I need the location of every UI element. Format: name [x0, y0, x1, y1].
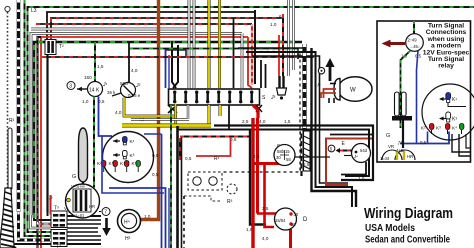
svg-text:1,0: 1,0 [82, 99, 89, 104]
svg-text:1,0: 1,0 [314, 82, 321, 87]
wire: brown heavy vertical [137, 0, 159, 220]
svg-text:5: 5 [330, 147, 333, 152]
connector T3 [51, 206, 67, 248]
wire: red heavy horizontal to F [254, 162, 281, 165]
wire: red corner into T3 [50, 195, 53, 214]
wire: lower-left run grey x33 [31, 215, 52, 228]
ignition feed circle J [77, 82, 108, 97]
svg-text:4,0: 4,0 [115, 110, 122, 115]
wire: red heavy vertical 2 [256, 118, 259, 214]
wire: green dashed vertical x171 [170, 105, 172, 248]
svg-text:2,5: 2,5 [262, 206, 269, 211]
svg-text:K³: K³ [436, 126, 441, 131]
wire: inset blue up right [427, 132, 429, 144]
inset lamp K1 [439, 93, 466, 107]
svg-text:HR: HR [407, 154, 413, 159]
wire: black bus y10 [47, 12, 255, 40]
wire: lower-left run striped x18 [19, 212, 52, 240]
svg-text:3: 3 [69, 84, 72, 90]
wire: grey vertical x288 [287, 0, 290, 76]
svg-text:2,5: 2,5 [303, 162, 310, 167]
wire: lower-left run bottom black [14, 243, 101, 245]
svg-text:J¹: J¹ [102, 82, 108, 88]
wire: grey/red dashed bus y22 [31, 28, 190, 31]
headlight switch F [274, 143, 330, 167]
dashed speaker circle [227, 184, 237, 205]
wire: black/green dashed left vertical [24, 0, 26, 221]
striped cable segment rectangle [304, 131, 311, 171]
svg-text:30: 30 [276, 155, 281, 160]
svg-text:Wiring Diagram: Wiring Diagram [364, 206, 453, 222]
wire: red horizontal to D [257, 212, 278, 214]
maroon arrow from relay [382, 40, 406, 48]
dimmer circle J2 [107, 42, 141, 98]
svg-text:K¹: K¹ [130, 139, 135, 145]
svg-text:R¹: R¹ [214, 156, 220, 162]
wire: green dashed branch y48 [129, 49, 298, 60]
svg-text:4,0: 4,0 [262, 236, 269, 241]
antenna tip circle [5, 6, 10, 11]
wire: red/black dashed vertical x283 to J3 [282, 14, 284, 76]
wire: brown to W [321, 93, 336, 98]
wire: lower-left run reddash x37 [38, 219, 52, 224]
wire: red bus y30 [41, 37, 248, 248]
wire: thin pair into E zone [344, 155, 351, 157]
wire: red heavy from fuse to column [253, 105, 258, 118]
svg-text:0,56 e: 0,56 e [128, 93, 141, 98]
svg-text:R³: R³ [227, 199, 233, 205]
svg-text:K¹: K¹ [452, 97, 457, 103]
speedometer cable hatched tube [0, 188, 16, 248]
svg-text:15/54: 15/54 [275, 218, 286, 223]
svg-text:0,5: 0,5 [185, 156, 192, 161]
svg-text:V+S+H: V+S+H [71, 184, 85, 189]
wire: grey bus y26 [31, 34, 242, 216]
wire: black vertical x233 [233, 18, 235, 88]
wire: green dashed right of G [93, 187, 95, 210]
wire: red to W [324, 89, 337, 98]
wire: green/black heavy dashed bus y41 [34, 42, 302, 220]
svg-text:50: 50 [291, 222, 296, 227]
wire: black horizontal to E zone C [330, 134, 374, 136]
wire: black horizontal to E zone A [214, 126, 373, 181]
wire: blue lamp link y134 [144, 133, 162, 135]
wire: blue loop near fuse box [166, 50, 187, 88]
wire: red dashed into E [340, 150, 352, 152]
wire: yellow drop from fuse 2 [219, 105, 222, 116]
svg-text:0,5: 0,5 [152, 153, 159, 158]
wire: grey vertical x293 [292, 0, 295, 70]
wire: black pair merging into fuse box [172, 41, 176, 88]
svg-text:D: D [303, 217, 308, 223]
fuse box S [169, 89, 267, 105]
wire: black to W [330, 83, 336, 85]
relay J3 [270, 76, 287, 101]
horn H [118, 210, 151, 243]
svg-text:6: 6 [279, 14, 282, 19]
ground symbol circle with dot [318, 68, 324, 74]
up arrow near W [325, 58, 334, 81]
svg-text:G: G [386, 133, 390, 139]
inset box frame [377, 21, 471, 162]
inset text [423, 23, 470, 70]
wire: yellow vertical 2 [218, 0, 221, 88]
svg-text:1=St: 1=St [75, 213, 85, 218]
svg-text:J²: J² [135, 83, 141, 89]
svg-text:2,5: 2,5 [242, 119, 249, 124]
wire: red/white dashed vertical x252 [251, 24, 253, 85]
ignition switch D [275, 208, 309, 230]
wire: grey horizontal y119 [131, 105, 229, 129]
wire: crossing under fuse box [168, 105, 177, 113]
wire: red vertical x279 to J3 [278, 35, 280, 76]
svg-text:W: W [350, 88, 356, 94]
wire: nested black corner 3 [246, 52, 352, 207]
wire: grey/red dashed bus y34 [38, 37, 42, 248]
svg-text:14 K: 14 K [89, 88, 100, 94]
svg-text:G: G [72, 174, 76, 180]
wire: black vertical to fuse box [254, 10, 256, 84]
svg-text:R²: R² [9, 118, 15, 124]
wire: red/black dashed bus y14 [51, 18, 283, 40]
wire: blue drop x169 [168, 188, 170, 248]
switch E [342, 141, 371, 163]
svg-text:L3: L3 [31, 8, 37, 14]
wire: heavy yellow bar [122, 124, 211, 128]
wire: grey vertical pair b [193, 0, 196, 88]
dashed enclosure under dash [222, 52, 300, 173]
wire: black/white striped heavy vertical [17, 0, 21, 212]
svg-text:36 k: 36 k [107, 90, 116, 95]
node circle 5 with arrow [328, 145, 342, 153]
wire: lower-left run greendash x27 [28, 225, 52, 232]
svg-text:0,5: 0,5 [420, 140, 427, 145]
wire: red vertical x248 [248, 37, 252, 88]
svg-text:ƒ6: ƒ6 [398, 140, 403, 145]
wire: grey vertical x242 [241, 34, 244, 89]
wire: black stub pair right of fuses [261, 60, 266, 88]
wire: black/white heavy striped cable vertical [302, 44, 305, 176]
wire: black left-cluster vertical [46, 54, 48, 212]
svg-text:1,0: 1,0 [46, 195, 53, 200]
svg-text:4,0: 4,0 [259, 119, 266, 124]
inset gauge arcs [380, 140, 415, 161]
wire: red/black dashed bus y57 [42, 56, 314, 58]
wire: inset blue horizontal [400, 132, 449, 144]
wire: yellow vertical 1 [208, 0, 211, 88]
svg-text:0,5: 0,5 [98, 99, 105, 104]
svg-text:1,0: 1,0 [358, 176, 365, 181]
wire: blue drop from J [99, 97, 113, 137]
wire: lower-left run blackgreen x24 [25, 221, 52, 236]
wire: dark red frame around E [326, 139, 374, 186]
svg-text:H³: H³ [125, 236, 131, 242]
wire: black horizontal to E zone B [178, 130, 369, 177]
svg-text:K³: K³ [130, 153, 135, 159]
inset flasher relay circle [406, 34, 424, 52]
wire: runs continuing right of T3 [67, 220, 101, 240]
indicator lamp K1 [113, 137, 135, 146]
inset big circle arc [422, 84, 474, 140]
svg-text:54d: 54d [360, 148, 368, 153]
indicator lamp row K2 K5 K4 K6 [97, 161, 140, 173]
wire: black L mid-bottom [250, 129, 266, 225]
fuel gauge sender G [72, 128, 88, 196]
wire: red vertical x264 [265, 164, 275, 228]
emergency flasher switch E3 [64, 184, 100, 218]
svg-text:HR: HR [89, 204, 95, 209]
svg-text:USA Models: USA Models [365, 223, 415, 234]
antenna lead dashed wire [7, 12, 9, 198]
wire: inset blue drop [417, 51, 419, 144]
wire: black below W [329, 98, 334, 103]
wire: red heavy vertical 1 [251, 118, 254, 248]
svg-text:H⁴: H⁴ [124, 220, 130, 226]
speedometer circle [103, 132, 154, 183]
svg-text:58b: 58b [277, 149, 285, 154]
radio R dashed box [188, 156, 222, 190]
ground arrow down [102, 218, 111, 236]
wire: dashed drop left of R [183, 196, 185, 248]
svg-text:Sedan and Convertible: Sedan and Convertible [365, 235, 450, 246]
svg-text:58: 58 [286, 157, 291, 162]
wire: yellow drop from fuse 1 [208, 105, 211, 126]
svg-text:4,0: 4,0 [131, 68, 138, 73]
svg-text:1,0: 1,0 [144, 214, 151, 219]
svg-text:K²: K² [421, 126, 426, 131]
svg-text:150: 150 [84, 75, 92, 80]
svg-text:VL: VL [64, 206, 70, 211]
svg-text:K⁴: K⁴ [452, 126, 457, 131]
svg-text:7: 7 [104, 210, 107, 216]
svg-text:relay: relay [438, 63, 454, 70]
inset stalk shapes [392, 92, 412, 148]
wire: green stub above relay [413, 21, 415, 34]
inset lamp row K2 K3 K4 [421, 124, 464, 135]
wire: blue under speedometer [102, 136, 164, 193]
wire: red branch to radio area [196, 137, 231, 156]
wire: nested black corner 2 [238, 47, 305, 49]
connector T2 [45, 40, 64, 55]
svg-text:K³: K³ [452, 117, 457, 123]
svg-text:30: 30 [294, 212, 299, 217]
inset lamp K3 [439, 112, 457, 123]
wire: red/black dashed vertical x180 [179, 138, 181, 160]
wire: dashed link to radio [184, 196, 220, 201]
svg-text:→45↓: →45↓ [409, 44, 420, 49]
svg-text:T³: T³ [54, 206, 59, 212]
svg-text:VR: VR [388, 144, 394, 149]
node circle 7 [99, 208, 110, 216]
svg-text:2↑49: 2↑49 [408, 38, 418, 43]
svg-text:1=St: 1=St [380, 156, 390, 161]
svg-text:J⁴: J⁴ [354, 154, 358, 159]
wiper motor W [334, 77, 372, 102]
wire: green dashed below J to flasher switch [93, 97, 95, 188]
svg-text:T²: T² [56, 244, 61, 248]
wire: black bus y18 [36, 23, 252, 25]
wire: green dashed drop to J [94, 42, 96, 82]
svg-text:T²: T² [59, 44, 64, 50]
wire: red/black dashed horizontal y136 [180, 136, 250, 138]
wire: blue horizontal y188 [109, 188, 166, 248]
wire: yellow from J2 down [124, 98, 177, 117]
svg-text:0,5: 0,5 [152, 172, 159, 177]
svg-text:1,5: 1,5 [284, 119, 291, 124]
wire: blue drop x161 [161, 134, 163, 248]
svg-text:2,5: 2,5 [253, 154, 260, 159]
wire: red below D [289, 229, 292, 248]
wire: nested black corner 4 [252, 56, 348, 183]
wire: grey vertical pair a [188, 0, 191, 88]
svg-text:1,0: 1,0 [270, 22, 277, 27]
svg-text:1,5: 1,5 [97, 64, 104, 69]
indicator lamp K3 [113, 151, 135, 160]
svg-text:J+B: J+B [396, 148, 404, 153]
wire: black border vertical x311 [312, 48, 357, 207]
svg-text:15: 15 [285, 149, 290, 154]
wire: black corner below E [341, 162, 366, 175]
antenna mast [8, 128, 12, 190]
wire: black vertical pair x178 lower [176, 126, 179, 248]
svg-text:J³: J³ [270, 95, 276, 101]
node circle 3 [67, 82, 75, 90]
wire: inset black corners right [452, 134, 470, 152]
wire: yellow riser x175 [174, 104, 177, 126]
wire: inset green dashed drop [401, 51, 411, 129]
